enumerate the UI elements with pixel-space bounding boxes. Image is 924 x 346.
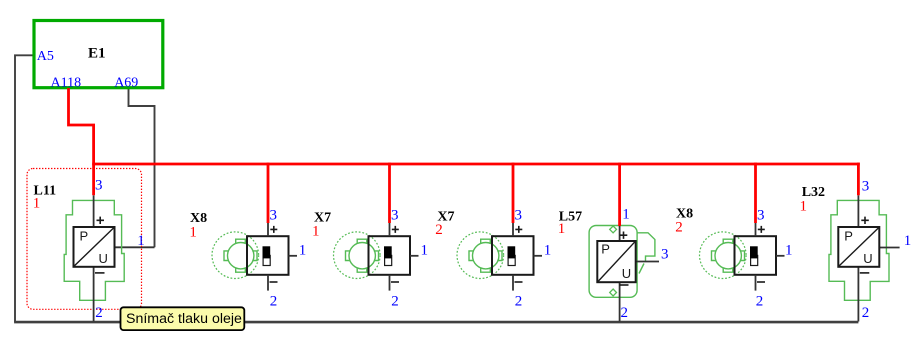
svg-text:3: 3: [862, 179, 870, 195]
svg-text:3: 3: [515, 208, 523, 224]
red wire A118 to L11 pin 3: [69, 88, 94, 195]
svg-text:2: 2: [270, 294, 278, 310]
svg-text:2: 2: [515, 294, 523, 310]
svg-text:1: 1: [421, 243, 429, 259]
wire A69 from E1 to L11 pin 1: [129, 88, 155, 247]
lamp X7 #2: [457, 223, 542, 291]
svg-text:Snímač tlaku oleje: Snímač tlaku oleje: [126, 311, 242, 327]
svg-text:1: 1: [189, 225, 197, 241]
svg-text:1: 1: [622, 207, 630, 223]
svg-text:1: 1: [299, 243, 307, 259]
svg-text:2: 2: [435, 222, 443, 238]
svg-text:3: 3: [95, 178, 103, 194]
svg-text:2: 2: [675, 220, 683, 236]
svg-text:P: P: [844, 229, 853, 244]
svg-text:2: 2: [621, 305, 629, 321]
red supply bus wire: [92, 163, 860, 166]
dotted selection box around L11: [27, 169, 142, 310]
sensor L32: [829, 195, 900, 321]
lamp X8 #2: [700, 223, 785, 291]
red drop to X7 #2: [512, 163, 515, 223]
svg-text:2: 2: [756, 294, 764, 310]
svg-text:3: 3: [661, 247, 669, 263]
svg-text:2: 2: [862, 305, 870, 321]
svg-text:1: 1: [800, 199, 808, 215]
red drop to L32 pin 3: [857, 163, 860, 196]
svg-text:U: U: [99, 251, 108, 266]
svg-text:A5: A5: [37, 49, 54, 64]
svg-text:E1: E1: [88, 46, 106, 62]
svg-text:A118: A118: [51, 76, 82, 91]
svg-text:1: 1: [904, 233, 912, 249]
lamp X7 #1: [334, 223, 419, 291]
svg-text:P: P: [80, 229, 89, 244]
svg-text:3: 3: [757, 208, 765, 224]
wire L11 pin 1 to A69 wire: [115, 246, 155, 248]
svg-text:1: 1: [558, 221, 566, 237]
svg-text:1: 1: [33, 196, 41, 212]
svg-text:2: 2: [391, 294, 399, 310]
svg-text:1: 1: [785, 243, 793, 259]
wire A5 from E1 to ground bus: [15, 55, 35, 322]
svg-text:3: 3: [270, 208, 278, 224]
sensor L11: [64, 195, 124, 321]
red drop to X8 #1: [267, 163, 270, 223]
tooltip Snimac tlaku oleje: [121, 307, 245, 330]
svg-text:2: 2: [95, 305, 103, 321]
sensor L57: [589, 226, 659, 322]
svg-text:3: 3: [391, 208, 399, 224]
svg-text:1: 1: [544, 243, 552, 259]
svg-text:A69: A69: [114, 76, 138, 91]
svg-text:U: U: [863, 251, 872, 266]
svg-text:1: 1: [137, 233, 145, 249]
red drop to X8 #2: [754, 163, 757, 223]
red drop to X7 #1: [388, 163, 391, 223]
lamp X8 #1: [212, 223, 297, 291]
ECU box E1: [34, 21, 163, 88]
svg-text:1: 1: [312, 224, 320, 240]
svg-text:U: U: [622, 266, 631, 281]
svg-text:P: P: [601, 242, 610, 257]
red drop to L57 pin 1: [618, 163, 621, 226]
ground bus wire: [14, 321, 858, 324]
